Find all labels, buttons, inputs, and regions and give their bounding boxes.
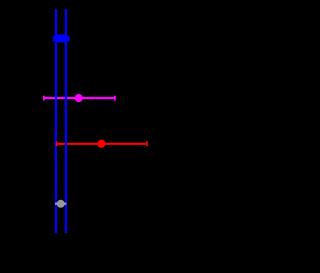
magenta right cap	[114, 96, 116, 101]
blue error bar	[53, 36, 70, 41]
magenta circle marker	[75, 94, 83, 102]
red circle marker	[97, 140, 105, 148]
gray error bar line	[55, 203, 66, 205]
red error bar line	[56, 143, 147, 145]
band line right (blue vertical)	[65, 9, 67, 233]
magenta error bar line	[44, 97, 116, 99]
band line left (blue vertical)	[55, 9, 57, 233]
red left cap	[56, 141, 58, 146]
red right cap	[146, 141, 148, 146]
magenta left cap	[43, 96, 45, 101]
gray circle marker	[57, 200, 65, 208]
blue square marker	[57, 35, 65, 43]
